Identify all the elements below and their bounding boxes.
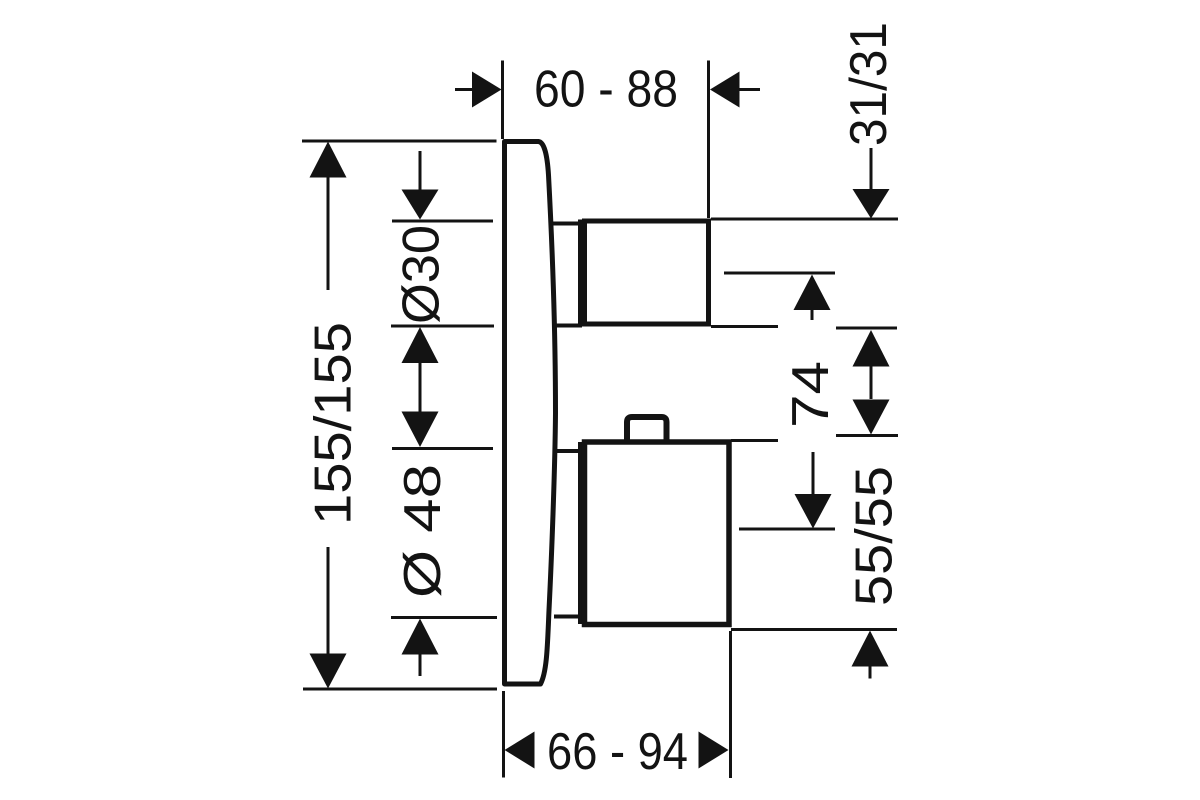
arrow 74 bottom shaft (812, 452, 815, 495)
arrowhead 66-94 right (699, 732, 729, 769)
arrow 74 top shaft (811, 309, 814, 320)
extension line 66-94 right (x730.5) (729, 631, 732, 778)
upper sleeve (552, 220, 580, 328)
arrow 155/155 top shaft (327, 177, 330, 290)
arrow 55/55 bottom shaft (869, 666, 872, 679)
arrowhead dia30 down (402, 190, 439, 220)
arrow 155/155 bottom shaft (327, 547, 330, 654)
tick 55/55 bottom (y629.5) (731, 628, 897, 631)
tick 55/55 top (y435.5) (836, 434, 898, 437)
arrow 60-88 left (455, 88, 473, 91)
svg-text:55/55: 55/55 (846, 466, 904, 606)
extension line 60-88 left (x503) (501, 61, 504, 140)
arrowhead 55/55 top down (853, 400, 890, 435)
extension line 60-88 right (x708.5) (707, 61, 710, 219)
arrow dia combo shaft (419, 362, 422, 412)
lower handle top extension (y441) (731, 439, 778, 442)
tick dia30 bottom (y326) (391, 325, 494, 328)
arrow 31/31 lower shaft (870, 366, 873, 399)
nub on lower handle (627, 417, 667, 441)
arrowhead 155/155 up (310, 142, 347, 178)
arrowhead 66-94 left (505, 732, 535, 769)
lower sleeve (554, 442, 580, 624)
arrowhead dia30 up (below tick) (402, 327, 439, 363)
escutcheon plate (side profile) (505, 142, 556, 685)
svg-text:Ø30: Ø30 (393, 225, 451, 324)
arrow dia48 bottom shaft (419, 654, 422, 676)
tick 155/155 bottom (y689) (303, 688, 497, 691)
handle top edge extension right (y219) (711, 218, 898, 221)
arrowhead 155/155 down (310, 654, 347, 689)
arrowhead dia48 down (above tick) (402, 412, 439, 448)
lower handle (585, 442, 730, 625)
tick dia30 top (y221) (392, 220, 493, 223)
arrowhead 74 down (795, 494, 832, 529)
tick dia48 bottom (y617.5) (391, 616, 497, 619)
arrow 60-88 right tail (740, 88, 761, 91)
tick 155/155 top (y141) (302, 140, 497, 143)
arrowhead 74 up (794, 275, 831, 311)
svg-text:155/155: 155/155 (305, 322, 363, 525)
upper handle (585, 221, 709, 324)
arrowhead 31/31 down (853, 189, 890, 219)
extension line 66-94 left (x503.5) (502, 691, 505, 778)
arrow dia30 top shaft (419, 151, 422, 190)
axis tick lower (y529) (739, 528, 835, 531)
svg-text:74: 74 (782, 361, 840, 428)
svg-text:60 - 88: 60 - 88 (534, 61, 678, 119)
tick 31/31 bottom (y328) (836, 327, 897, 330)
axis tick upper (y273) (724, 272, 835, 275)
arrowhead 31/31 up (below) (853, 330, 890, 367)
arrowhead 55/55 bottom up (852, 631, 889, 667)
tick dia48 top (y448.5) (392, 447, 493, 450)
arrowhead 60-88 right (710, 72, 740, 108)
svg-text:31/31: 31/31 (840, 22, 898, 146)
arrow 31/31 shaft (870, 148, 873, 190)
arrowhead 60-88 left (472, 72, 502, 108)
arrowhead dia48 bottom up (402, 619, 439, 655)
svg-text:66 - 94: 66 - 94 (547, 723, 688, 781)
svg-text:Ø 48: Ø 48 (394, 464, 452, 598)
handle bottom edge extension (y326) (711, 325, 778, 328)
